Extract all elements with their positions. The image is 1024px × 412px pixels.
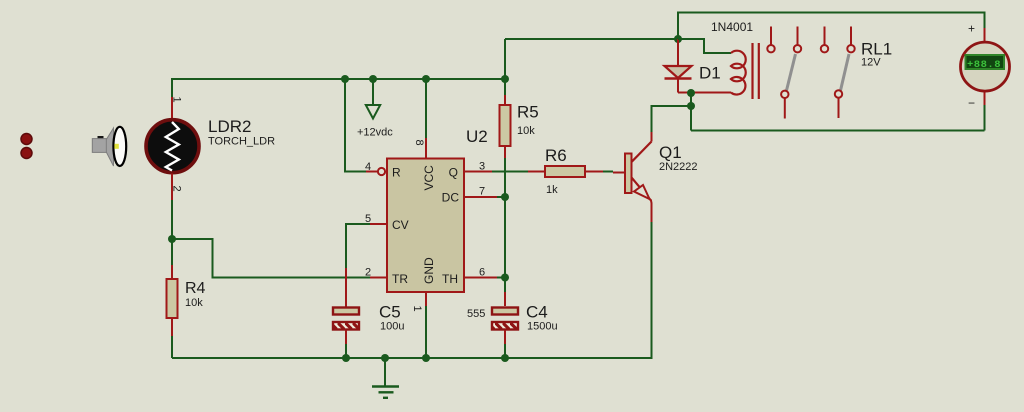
wire GND pin drop	[425, 292, 427, 358]
label RL1	[861, 40, 892, 69]
relay contact pole 2	[821, 27, 855, 119]
node junction ground stem	[381, 354, 389, 362]
wire LDR top to rail	[172, 79, 505, 119]
ground	[372, 358, 399, 398]
node junction TH	[501, 274, 509, 282]
wire TR branch	[172, 239, 370, 278]
svg-text:8: 8	[413, 140, 425, 146]
node junction rail/R branch	[341, 75, 349, 83]
IC U2 555 body	[378, 159, 464, 293]
svg-text:TORCH_LDR: TORCH_LDR	[208, 136, 275, 148]
label R4	[185, 280, 206, 309]
torch icon	[92, 127, 126, 166]
svg-text:R4: R4	[185, 280, 206, 297]
node junction collector branch	[687, 102, 695, 110]
node junction rail/power	[369, 75, 377, 83]
LDR LDR2	[146, 120, 199, 173]
wire emitter to bottom rail	[172, 200, 652, 359]
svg-text:4: 4	[365, 161, 371, 173]
svg-text:DC: DC	[442, 191, 460, 205]
svg-text:10k: 10k	[185, 297, 203, 309]
label R6	[545, 146, 567, 196]
label LDR2	[208, 117, 275, 148]
svg-text:10k: 10k	[517, 125, 535, 137]
node junction LDR/TR branch	[168, 235, 176, 243]
node junction GND/bottom rail	[422, 354, 430, 362]
resistor R6	[545, 166, 585, 177]
svg-text:+: +	[968, 22, 975, 36]
wire R pin branch	[345, 79, 378, 172]
wire VCC drop	[425, 79, 427, 158]
svg-text:LDR2: LDR2	[208, 117, 251, 136]
node junction C5/bottom rail	[342, 354, 350, 362]
wire relay feed	[505, 38, 678, 40]
svg-text:GND: GND	[422, 257, 436, 284]
diode D1	[665, 39, 692, 93]
wire relay top rail	[678, 13, 985, 40]
svg-text:2: 2	[365, 267, 371, 279]
wire relay bottom rail	[691, 130, 985, 132]
svg-text:12V: 12V	[861, 57, 881, 69]
wire R5/C4 vertical	[504, 39, 506, 306]
node junction rail top	[501, 75, 509, 83]
svg-text:555: 555	[467, 308, 485, 320]
node junction rail/VCC	[422, 75, 430, 83]
svg-text:+88.8: +88.8	[967, 59, 1001, 71]
svg-text:5: 5	[365, 213, 371, 225]
node junction C4/bottom rail	[501, 354, 509, 362]
wire coil bottom to collector node	[690, 93, 692, 131]
label Q1	[659, 143, 698, 173]
relay coil RL1	[678, 39, 759, 99]
wire DC pin to node	[464, 196, 505, 198]
svg-text:+12vdc: +12vdc	[357, 127, 393, 139]
capacitor C5	[333, 308, 359, 359]
voltmeter	[961, 22, 1010, 131]
svg-text:1: 1	[411, 306, 423, 312]
wire Q output to R6	[464, 171, 545, 173]
label R5	[517, 103, 539, 138]
svg-text:1N4001: 1N4001	[711, 20, 753, 34]
node junction DC	[501, 193, 509, 201]
wire CV branch	[346, 224, 387, 307]
svg-text:CV: CV	[392, 218, 409, 232]
transistor Q1	[625, 142, 652, 201]
wire TH pin to node	[464, 277, 505, 279]
svg-text:C4: C4	[526, 303, 548, 322]
svg-text:U2: U2	[466, 127, 488, 146]
wire collector	[652, 106, 692, 142]
label C5	[379, 303, 404, 333]
wire R6 to base	[585, 172, 624, 173]
label C4	[526, 303, 558, 333]
svg-text:7: 7	[479, 186, 485, 198]
svg-text:1500u: 1500u	[527, 321, 558, 333]
svg-text:D1: D1	[699, 64, 721, 83]
svg-text:Q1: Q1	[659, 143, 682, 162]
capacitor C4	[492, 308, 518, 359]
marker dots left	[21, 134, 32, 159]
svg-text:−: −	[968, 96, 975, 110]
svg-text:R6: R6	[545, 146, 567, 165]
svg-text:2N2222: 2N2222	[659, 161, 698, 173]
svg-text:R: R	[392, 166, 401, 180]
wire LDR bottom to R4 and bottom rail	[171, 174, 173, 359]
node junction diode/coil bottom	[687, 89, 695, 97]
svg-text:1: 1	[171, 97, 183, 103]
resistor R5	[500, 105, 511, 146]
svg-text:100u: 100u	[380, 321, 404, 333]
svg-text:TH: TH	[442, 272, 458, 286]
svg-text:Q: Q	[449, 166, 458, 180]
node junction relay feed	[674, 35, 682, 43]
svg-text:VCC: VCC	[422, 165, 436, 191]
svg-text:1k: 1k	[546, 184, 558, 196]
power +12vdc	[357, 79, 393, 139]
svg-text:R5: R5	[517, 103, 539, 122]
svg-text:TR: TR	[392, 272, 408, 286]
svg-text:C5: C5	[379, 303, 401, 322]
relay contact pole 1	[767, 27, 801, 119]
pin stub TR	[370, 277, 387, 279]
resistor R4	[167, 279, 178, 318]
